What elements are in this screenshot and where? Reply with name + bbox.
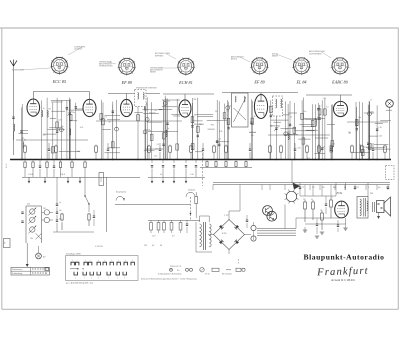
svg-text:Ph: Ph (177, 270, 179, 272)
wire below EL84 area (304, 227, 306, 230)
crossing wires below pots (36, 233, 42, 239)
svg-text:15n: 15n (43, 134, 46, 136)
push-button switch unit box (66, 256, 139, 281)
svg-text:C4: C4 (218, 139, 220, 141)
transformer top leads (199, 216, 201, 222)
svg-text:Schaltlage UKW: Schaltlage UKW (66, 253, 81, 256)
svg-text:30: 30 (109, 121, 111, 123)
long horizontal link detector (268, 134, 330, 136)
ignition column dashed (190, 197, 192, 220)
svg-text:L4: L4 (229, 106, 231, 108)
svg-text:4,7k: 4,7k (166, 101, 169, 103)
cap C55 (93, 215, 95, 217)
wire lower left joins (53, 231, 94, 233)
bridge connection wires (228, 211, 230, 220)
output transformer core lines (363, 198, 365, 217)
svg-text:25k: 25k (193, 99, 196, 101)
svg-text:MASSE: MASSE (150, 71, 157, 74)
triode V1b ECC85 mixer (83, 99, 96, 116)
svg-text:6,3 V: 6,3 V (6, 163, 8, 168)
wire pot cluster right leads (42, 211, 45, 213)
svg-text:C71: C71 (312, 187, 315, 189)
cluster between V1 and V2 (41, 101, 43, 160)
ground symbol under AF cap (315, 236, 319, 238)
svg-text:ANODE: ANODE (231, 58, 238, 61)
supply filter components (150, 223, 153, 231)
svg-text:4 F 25: 4 F 25 (205, 274, 210, 276)
tone cap stack C52 (56, 203, 58, 205)
ground symbol under grid resistor (320, 232, 324, 234)
supply rail drops (212, 185, 214, 190)
resistor row above ground bus (24, 145, 26, 146)
converter output wires bundle (257, 228, 296, 230)
svg-text:Knopf (innen): Knopf (innen) (116, 192, 127, 194)
legend box dots row2 (32, 272, 33, 274)
drop to rectifier socket (291, 160, 293, 183)
svg-text:0,1: 0,1 (286, 128, 289, 130)
rectifier bridge diamond (214, 220, 245, 250)
svg-text:250: 250 (322, 187, 325, 189)
drop wires from lower rail (28, 177, 30, 182)
speaker return wire (345, 183, 347, 190)
svg-text:20k: 20k (348, 132, 351, 134)
below bus caps left (39, 165, 41, 167)
legend box (11, 267, 50, 275)
svg-text:C24: C24 (364, 147, 367, 149)
triple diode triode V6 EABC80 (334, 101, 348, 116)
svg-text:15n: 15n (72, 112, 75, 114)
AVC resistors below bus (206, 160, 208, 162)
svg-text:EF 89: EF 89 (121, 80, 133, 85)
output transformer T60 box (357, 197, 368, 219)
svg-text:EL 84: EL 84 (295, 79, 306, 84)
legend symbol meter circle (200, 268, 204, 272)
switch movement arrow (70, 268, 79, 270)
below bus mid components (151, 160, 153, 164)
ground arrows below lower rail (28, 177, 30, 181)
legend box divider (11, 270, 50, 272)
svg-text:120: 120 (330, 197, 333, 199)
svg-text:Frankfurt: Frankfurt (316, 266, 369, 279)
svg-text:8p: 8p (271, 126, 273, 128)
tube socket base diagram ECH 81 (178, 58, 194, 74)
svg-text:70k: 70k (61, 126, 64, 128)
long horizontal link IF strip 2 (148, 131, 178, 133)
svg-text:203: 203 (144, 245, 147, 247)
svg-text:170: 170 (303, 199, 306, 201)
feedback resistor R44 (330, 198, 332, 200)
svg-text:1,2k: 1,2k (378, 127, 381, 129)
tone stack wire (56, 177, 58, 204)
svg-text:100: 100 (77, 151, 80, 153)
svg-text:Blaupunkt-Autoradio: Blaupunkt-Autoradio (304, 253, 385, 262)
svg-text:0,1: 0,1 (22, 138, 25, 140)
tube socket base diagram EF 89 (119, 58, 135, 74)
bridge diode D4 (219, 241, 222, 244)
sheet border frame bottom line (2, 308, 399, 310)
loudspeaker cone (384, 197, 391, 216)
wire top rail tube4 region (184, 94, 186, 100)
cluster IF strip V3-V4 (137, 101, 139, 159)
svg-text:EMPFANG: EMPFANG (155, 54, 164, 57)
svg-text:El 84: El 84 (336, 192, 343, 195)
vibrator transformer primary coil (200, 224, 202, 247)
svg-text:220 14 6,3 7,8: 220 14 6,3 7,8 (170, 266, 181, 268)
transformer frame (195, 222, 197, 252)
svg-text:25n: 25n (59, 219, 62, 221)
svg-text:6,4: 6,4 (152, 245, 154, 247)
legend symbol box (212, 268, 219, 271)
ground symbol under EL84 cathode (343, 228, 347, 230)
wire loop jump arc (116, 197, 124, 201)
ground symbol under cathode resistor (303, 230, 307, 232)
wire pot cluster to lamp (26, 243, 28, 264)
below bus resistor row left (24, 160, 26, 163)
ignition switch arc (186, 192, 195, 197)
svg-text:15n: 15n (303, 111, 306, 113)
long horizontal link RF section (16, 139, 88, 141)
lower rail left section (22, 176, 140, 178)
svg-text:EABC 80: EABC 80 (331, 79, 349, 84)
grid resistor R43 (321, 211, 323, 213)
ground arrow below speaker (378, 213, 380, 217)
svg-text:UKW EMPFANG: UKW EMPFANG (309, 52, 322, 55)
transistor Q1 converter (263, 206, 273, 216)
legend symbol lamp (170, 268, 173, 271)
output transformer secondary (367, 201, 368, 211)
svg-text:5k: 5k (254, 116, 256, 118)
svg-text:10n: 10n (59, 210, 62, 212)
antenna (10, 60, 17, 67)
svg-text:ECC 85: ECC 85 (52, 79, 66, 84)
long horizontal link IF strip (96, 120, 182, 122)
legend symbol circle pair (186, 268, 189, 271)
supply filter row wire (148, 219, 200, 221)
supply filter caps (186, 223, 188, 225)
svg-text:25k: 25k (27, 204, 30, 206)
tone cap stack C53 (56, 211, 58, 213)
svg-text:0,1: 0,1 (104, 116, 107, 118)
dashed drop right of mid (202, 150, 204, 186)
resistor R34 (88, 213, 90, 214)
sheet border frame right line (397, 28, 399, 309)
svg-text:C12: C12 (154, 155, 157, 157)
bridge top feed wire (229, 210, 240, 212)
legend symbol box circle (236, 268, 241, 271)
junction dot battery node (190, 213, 192, 215)
tilted tube socket wiring view (286, 191, 296, 201)
loudspeaker magnet (377, 201, 385, 213)
supply rail long drops (304, 185, 306, 196)
wire right edge vertical (389, 107, 391, 159)
AVC rail segment (200, 167, 252, 169)
svg-text:5n: 5n (59, 202, 61, 204)
legend symbol line (226, 269, 231, 271)
svg-text:0,1: 0,1 (160, 174, 162, 176)
legend box right tag (45, 268, 49, 271)
tube socket base diagram EF 89 (252, 58, 268, 74)
svg-text:ab Gerät Nr. F 138 001: ab Gerät Nr. F 138 001 (331, 279, 355, 282)
pentode V4 EF89 IF amp 2 (254, 95, 267, 119)
EL84 cathode cap (337, 224, 339, 226)
svg-text:L 4 R 34: L 4 R 34 (95, 246, 103, 248)
wire top rail tube6 region (340, 95, 342, 101)
triode V1a ECC85 RF amp (27, 99, 40, 116)
ground bus chassis rail (10, 159, 391, 161)
output stage wires (296, 217, 340, 219)
antenna lead wire (13, 66, 15, 155)
fuse box in feed (195, 197, 198, 204)
dial lamp 6V (36, 253, 42, 259)
tube socket base diagram EL 84 (294, 58, 310, 74)
ratio det coils (276, 99, 277, 108)
svg-text:Zündschl.: Zündschl. (188, 190, 196, 192)
svg-text:ECH 81: ECH 81 (178, 80, 193, 85)
ratio detector transformer dashed (273, 96, 283, 116)
caps on HT rail (299, 186, 301, 188)
wire top rail tube3 region (126, 94, 128, 100)
svg-text:L12: L12 (154, 110, 157, 112)
switch S1 on volume pot (84, 190, 86, 196)
dashed box right edge below bus (386, 166, 395, 180)
svg-text:0,25: 0,25 (379, 136, 383, 138)
output pentode V5 EL84 (335, 201, 349, 218)
svg-text:1,2k: 1,2k (219, 131, 222, 133)
svg-text:L7: L7 (370, 100, 372, 102)
svg-text:5k: 5k (311, 199, 313, 201)
svg-text:68: 68 (160, 245, 162, 247)
legend box dots row1 (32, 268, 33, 270)
switch pot right P5 (44, 217, 49, 222)
cluster AF V6 right (355, 102, 357, 160)
band filter block (232, 93, 249, 127)
svg-text:MASSE: MASSE (272, 55, 279, 58)
svg-text:C 64: C 64 (190, 174, 194, 176)
switch pot right P4 (44, 210, 49, 215)
svg-text:VERBINDUNGEN: VERBINDUNGEN (99, 66, 113, 68)
wire lamp to pots (38, 246, 40, 253)
svg-text:B 250: B 250 (222, 233, 226, 235)
heptode V3 ECH81 (179, 100, 191, 117)
filter elco C60 (251, 225, 256, 230)
svg-text:L4: L4 (290, 117, 292, 119)
bundle vertical join (295, 218, 297, 229)
svg-text:B: B (238, 263, 239, 265)
output transformer winding (360, 199, 361, 216)
pentode V2 EF89 IF amp (121, 99, 133, 116)
svg-text:C24: C24 (323, 98, 326, 100)
svg-text:C72: C72 (356, 187, 359, 189)
transistor Q2 converter (267, 211, 277, 221)
pot cluster small caps (21, 211, 23, 213)
cluster oscillator V4 right (191, 103, 193, 160)
volume potentiometer P1 (30, 209, 35, 214)
switch contact row 1 (71, 262, 74, 265)
chassis tag box far left (4, 239, 11, 248)
long horizontal link AF right (347, 121, 388, 123)
filter elco C61 (251, 236, 256, 241)
svg-text:4,7k: 4,7k (80, 127, 83, 129)
svg-text:10k: 10k (30, 238, 33, 240)
HT supply rail 2 (213, 184, 390, 186)
wire top rail tube1 to tube2 (32, 92, 34, 100)
sheet border frame left line (1, 28, 3, 309)
svg-text:R48: R48 (333, 187, 336, 189)
svg-text:R3: R3 (48, 108, 50, 110)
tone cap stack C54 (56, 219, 58, 221)
vertical feed from IF strip down (106, 177, 108, 232)
svg-text:2n: 2n (43, 108, 45, 110)
lower rail mid section (148, 176, 205, 178)
svg-text:EF 89: EF 89 (253, 79, 265, 84)
germanium diode demod circle (386, 100, 394, 108)
cluster antenna input parts (20, 107, 22, 159)
IF transformer can dashed box 1 (135, 90, 147, 107)
cap near bridge (246, 219, 248, 221)
bridge diode D1 (219, 225, 222, 228)
svg-text:C 175: C 175 (224, 215, 228, 217)
svg-text:15n: 15n (155, 148, 158, 150)
bridge diode D2 (236, 225, 239, 228)
svg-text:C31: C31 (297, 147, 300, 149)
svg-text:B7: B7 (45, 273, 47, 275)
AF caps (316, 223, 318, 225)
svg-text:25k: 25k (215, 111, 218, 113)
bridge diode D3 (236, 241, 239, 244)
band filter coils (235, 96, 236, 102)
tube socket base diagram ECC 85 (51, 57, 67, 73)
svg-text:C4: C4 (157, 144, 159, 146)
wire top rail tube5 region (260, 93, 262, 95)
cluster band filter right part (251, 99, 253, 159)
tone stack resistor (61, 213, 63, 214)
battery feed wire (115, 204, 190, 206)
cluster between V2 and V3 (100, 100, 102, 160)
cathode resistor R41 (304, 200, 306, 202)
arrowhead to legend box (26, 264, 29, 267)
svg-text:70k: 70k (194, 114, 197, 116)
volume potentiometer frame (25, 206, 27, 243)
svg-text:R22: R22 (211, 124, 214, 126)
svg-text:2n: 2n (149, 130, 151, 132)
HT supply rail 1 (213, 182, 390, 184)
svg-text:20k: 20k (251, 135, 254, 137)
IF transformer can coils 1 (138, 93, 139, 100)
vibrator transformer secondary coil (209, 224, 211, 247)
switch contact row 2 (74, 272, 77, 275)
svg-text:L9: L9 (66, 110, 68, 112)
speaker terminal bars (372, 202, 374, 212)
tube socket base diagram EABC 80 (332, 58, 348, 74)
vibrator transformer core (203, 222, 205, 250)
sheet border frame top line (0, 27, 399, 29)
antenna coupling parts (12, 116, 14, 118)
terminal box on lower rail (99, 173, 104, 186)
tone potentiometer P3 (30, 227, 35, 232)
svg-text:0,5: 0,5 (326, 107, 329, 109)
socket pointer filled triangle (293, 183, 301, 190)
tone potentiometer P2 (30, 217, 35, 222)
cluster detector V5 right (270, 100, 272, 159)
svg-text:15: 15 (302, 187, 304, 189)
band filter cross arrows (234, 97, 247, 122)
screen resistor R42 (312, 200, 314, 202)
